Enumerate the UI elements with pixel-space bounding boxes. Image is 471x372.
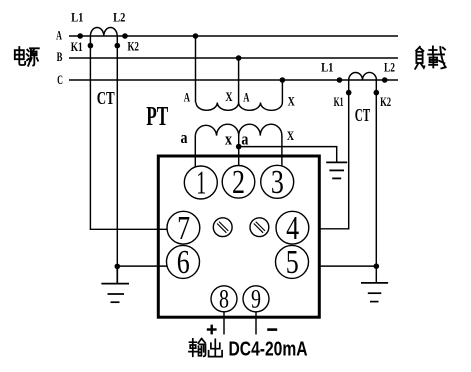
node K1 dot CT1 xyxy=(88,43,94,49)
svg-text:L1: L1 xyxy=(321,59,333,74)
svg-text:X: X xyxy=(225,89,233,104)
terminal 5 circle xyxy=(276,245,309,278)
svg-text:K2: K2 xyxy=(127,39,139,54)
wire CT1 K2 tap vertical xyxy=(116,36,118,266)
svg-text:A: A xyxy=(243,89,250,104)
node K1 dot CT2 xyxy=(346,90,352,96)
node ground G1 dot xyxy=(115,264,121,270)
svg-text:8: 8 xyxy=(219,285,229,314)
svg-text:5: 5 xyxy=(286,244,299,281)
device box U1 xyxy=(158,156,319,317)
svg-text:L1: L1 xyxy=(71,10,83,25)
wire output terminal9 xyxy=(255,310,257,335)
svg-text:K1: K1 xyxy=(71,39,83,54)
node L1 dot CT1 xyxy=(77,33,83,39)
terminal 9 circle xyxy=(243,286,269,312)
wire output terminal8 xyxy=(223,310,225,335)
svg-text:7: 7 xyxy=(177,210,190,247)
svg-text:a: a xyxy=(181,128,188,147)
label output minus xyxy=(267,328,277,331)
transformer PT secondary winding2 xyxy=(239,124,282,169)
terminal digits xyxy=(177,164,299,314)
terminal 6 circle xyxy=(167,245,200,278)
node ground G2 dot xyxy=(374,263,380,269)
terminal 3 circle xyxy=(261,165,294,198)
svg-text:a: a xyxy=(241,129,248,148)
screw S1 xyxy=(213,218,232,237)
wire phase C line xyxy=(69,79,398,81)
wire CT1 K1 tap vertical xyxy=(90,36,167,229)
terminal 1 circle xyxy=(184,166,217,199)
ground G2 xyxy=(361,283,388,302)
svg-text:X: X xyxy=(288,94,296,109)
text fuzai (load) xyxy=(415,46,445,68)
svg-text:L2: L2 xyxy=(384,59,395,74)
wire CT2 K1 tap vertical xyxy=(319,80,349,229)
wire phase A line xyxy=(69,35,398,37)
svg-text:A: A xyxy=(56,27,62,42)
svg-text:L2: L2 xyxy=(113,10,125,25)
svg-text:2: 2 xyxy=(232,164,245,201)
svg-text:x: x xyxy=(225,129,233,148)
ground G1 xyxy=(101,266,129,302)
svg-text:C: C xyxy=(57,72,63,87)
label output plus xyxy=(207,325,217,335)
node K2 dot CT1 xyxy=(115,43,121,49)
svg-text:K1: K1 xyxy=(334,94,344,109)
node PT secondary neutral dot xyxy=(236,144,242,150)
screw S2 xyxy=(250,218,269,237)
svg-text:CT: CT xyxy=(97,88,115,108)
svg-text:A: A xyxy=(184,89,191,104)
svg-text:PT: PT xyxy=(146,101,168,131)
node PT-A dot on line A xyxy=(193,33,199,39)
wire PT neutral to ground G3 xyxy=(239,147,337,163)
svg-text:X: X xyxy=(287,128,295,143)
node L2 dot CT2 xyxy=(382,77,388,83)
transformer PT primary winding2 xyxy=(239,80,283,110)
wire terminal5 horizontal xyxy=(319,265,376,267)
svg-text:DC4-20mA: DC4-20mA xyxy=(229,337,308,360)
svg-text:3: 3 xyxy=(271,164,284,201)
svg-text:K2: K2 xyxy=(380,94,391,109)
node L1 dot CT2 xyxy=(337,77,343,83)
node PT-X2 dot on line C xyxy=(280,77,286,83)
node K2 dot CT2 xyxy=(374,90,380,96)
transformer PT secondary winding1 xyxy=(195,124,238,170)
wire CT2 K2 tap vertical xyxy=(375,80,377,283)
terminal 4 circle xyxy=(276,211,309,244)
svg-text:B: B xyxy=(57,49,63,64)
wire phase B line xyxy=(69,57,398,59)
terminal 7 circle xyxy=(167,211,200,244)
transformer CT1 winding arcs xyxy=(90,27,117,36)
svg-text:9: 9 xyxy=(251,285,261,314)
terminal 8 circle xyxy=(211,286,237,312)
node L2 dot CT1 xyxy=(122,33,128,39)
terminal 2 circle xyxy=(222,166,255,199)
text shuchu (output) xyxy=(189,339,222,357)
svg-text:4: 4 xyxy=(286,210,299,247)
svg-text:1: 1 xyxy=(196,165,206,202)
transformer PT primary winding1 xyxy=(196,36,239,110)
transformer CT2 winding arcs xyxy=(349,72,377,80)
ground G3 xyxy=(326,162,347,178)
wire terminal6 horizontal xyxy=(117,265,167,267)
svg-text:CT: CT xyxy=(355,105,371,125)
node PT-X dot on line B xyxy=(236,55,242,61)
svg-text:6: 6 xyxy=(177,244,190,281)
text dianyuan (power source) xyxy=(15,47,39,66)
